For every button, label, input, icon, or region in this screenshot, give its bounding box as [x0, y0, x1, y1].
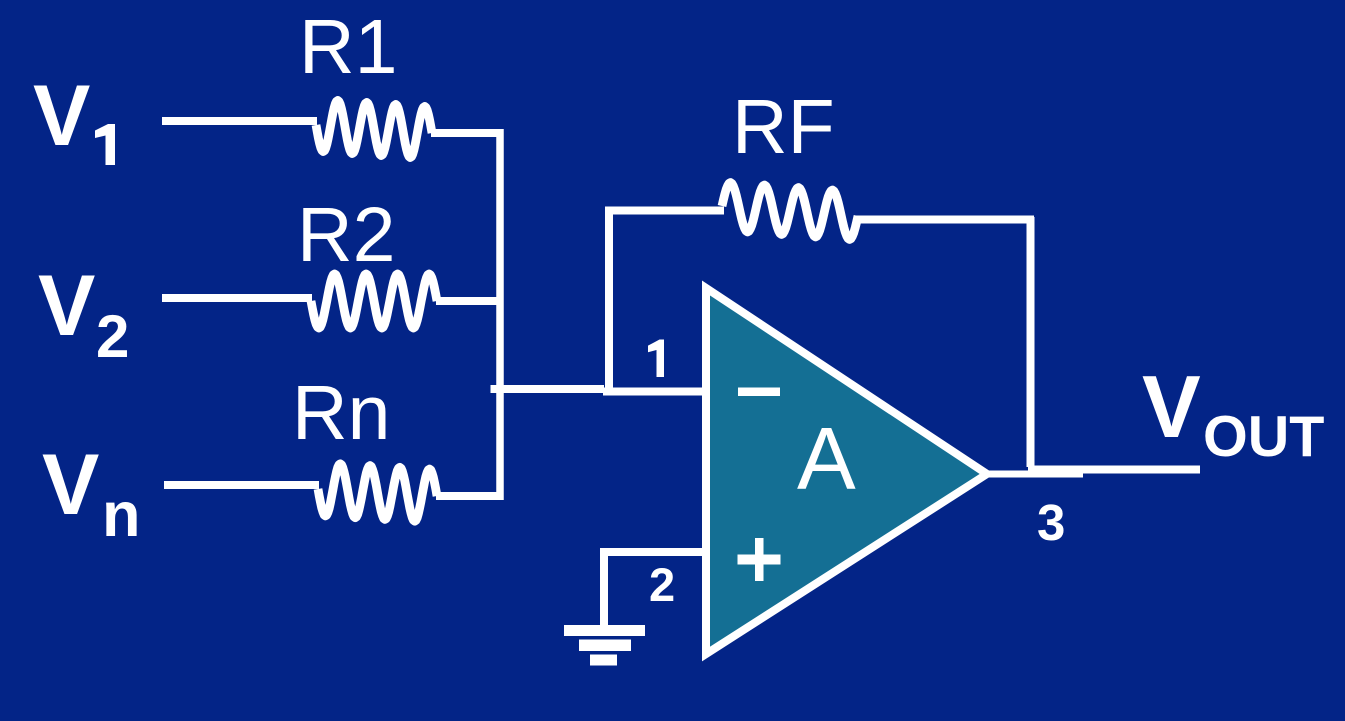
wire summing bus to inverting input (upper segment)	[491, 385, 605, 393]
wire RF to feedback drop	[854, 216, 1034, 224]
non-inverting input plus sign	[738, 538, 781, 581]
source label V2	[38, 258, 129, 370]
wire non-inverting input to ground corner	[604, 552, 704, 627]
wire output pin 3 (lower segment from op-amp tip)	[984, 471, 1083, 478]
label VOUT	[1142, 357, 1324, 469]
wire R2 to summing bus	[436, 297, 503, 305]
wire V2 to R2	[162, 294, 312, 302]
resistor R2	[311, 274, 437, 328]
wire feedback drop to output node	[1027, 217, 1035, 467]
pin 1 label	[648, 340, 664, 378]
svg-text:n: n	[102, 480, 140, 550]
resistor RF	[722, 183, 858, 240]
inverting input minus sign	[738, 388, 780, 397]
wire feedback top left to RF	[605, 207, 724, 215]
svg-text:RF: RF	[732, 84, 835, 170]
svg-text:V: V	[42, 437, 99, 533]
op-amp A (triangle body)	[706, 288, 987, 654]
svg-text:V: V	[1142, 357, 1201, 456]
svg-text:V: V	[33, 68, 90, 164]
source label Vn	[42, 437, 140, 550]
wire Vn to Rn	[164, 481, 319, 489]
resistor Rn	[318, 464, 437, 521]
source label V1	[33, 68, 115, 165]
node summing bus (vertical junction line)	[496, 129, 504, 500]
svg-text:OUT: OUT	[1203, 405, 1324, 469]
svg-text:A: A	[797, 409, 856, 508]
wire V1 to R1	[162, 117, 317, 125]
svg-text:R2: R2	[297, 192, 395, 278]
svg-text:R1: R1	[299, 4, 397, 90]
svg-text:2: 2	[649, 558, 675, 611]
wire Rn to summing bus	[436, 492, 503, 500]
svg-text:Rn: Rn	[292, 370, 390, 456]
ground	[564, 625, 645, 666]
wire to inverting input (lower segment at pin 1)	[603, 388, 704, 396]
wire feedback riser from inverting input node	[605, 211, 613, 391]
resistor R1	[316, 101, 432, 158]
wire output to VOUT (upper segment)	[1028, 466, 1200, 474]
svg-text:2: 2	[96, 303, 129, 370]
svg-text:3: 3	[1037, 494, 1065, 551]
wire R1 to summing bus	[431, 129, 503, 137]
svg-text:V: V	[38, 258, 95, 354]
